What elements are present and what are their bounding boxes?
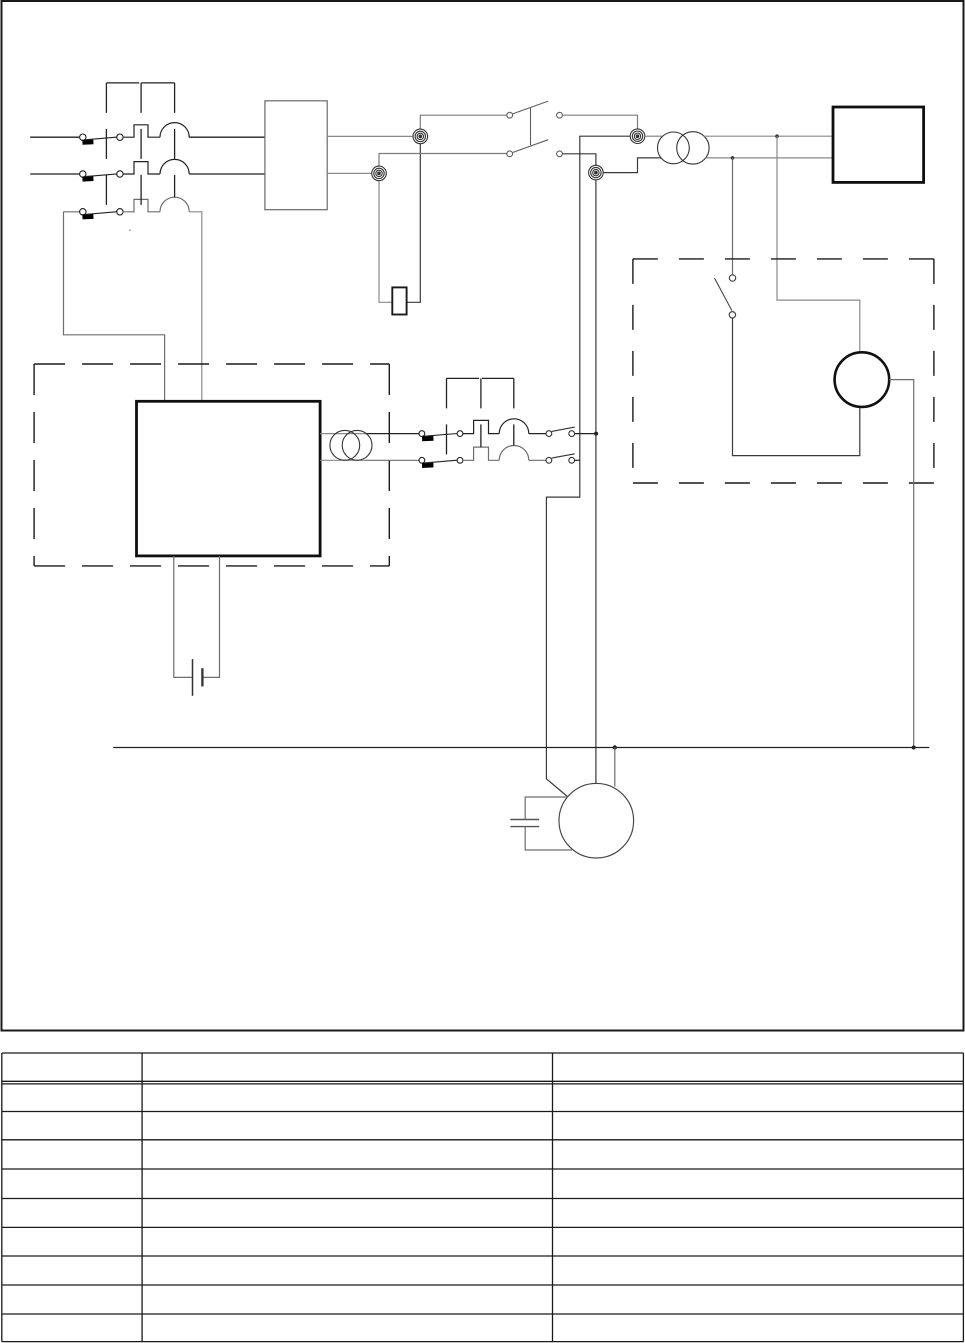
breaker pole 1 release block [82, 139, 93, 145]
wire row 1 to switch [529, 433, 546, 435]
relay row 1 coil arc [499, 419, 529, 434]
door switch S1 pole 2 contact right [557, 151, 563, 157]
table row rule 4 [2, 1198, 964, 1200]
breaker pole 2 thermal element and wire [123, 162, 160, 174]
wire controller bottom left to battery [174, 556, 193, 678]
wire pole 2 to filter [189, 173, 265, 175]
breaker pole 1 blade [85, 137, 117, 140]
connector J3 [630, 129, 645, 144]
relay row 2 thermal element [463, 447, 499, 460]
door switch S1 pole 2 blade [513, 140, 549, 153]
table column divider 1 [141, 1053, 143, 1342]
transformer T2 secondary circle [342, 430, 372, 460]
junction node upper [775, 134, 779, 138]
common horizontal line [113, 747, 929, 749]
noise filter box [265, 101, 327, 210]
wire lamp switch to lamp bottom [733, 318, 860, 456]
wire junction down to motor [614, 748, 616, 787]
relay row 2 blade [425, 460, 458, 463]
table column divider 2 [552, 1053, 554, 1342]
table row rule 8 [2, 1313, 964, 1315]
row 2 switch blade [552, 454, 575, 458]
wire capacitor top to motor [525, 797, 568, 820]
door switch S1 pole 1 contact right [557, 112, 563, 118]
wire controller output lower dark [366, 459, 420, 461]
connector J2 [372, 166, 387, 181]
transformer T2 primary circle [330, 430, 360, 460]
capacitor top plate [510, 819, 539, 821]
wire L phase input pole 1 [30, 136, 80, 138]
table header double rule lower [2, 1083, 964, 1085]
breaker pole 3 thermal element and wire [123, 199, 160, 211]
connector J1 [413, 129, 428, 144]
junction node common line right [912, 746, 916, 750]
breaker pole 3 release block [82, 214, 93, 220]
table row rule 5 [2, 1226, 964, 1228]
wire controller bottom right to battery [202, 556, 219, 678]
table row rule 7 [2, 1284, 964, 1286]
connector J4 [589, 165, 604, 180]
breaker pole 2 contact circle left [80, 171, 86, 177]
relay row 1 thermal element [463, 420, 499, 433]
wire row 2 to switch [529, 459, 546, 461]
wire row 2 to vertical line [575, 459, 580, 461]
wire connector J2 up to door switch [379, 154, 507, 174]
wire connector J1 up to door switch [420, 115, 506, 136]
wire switch pole1 to connector J3 [562, 115, 637, 129]
wire from connector J4 long drop to motor [595, 180, 597, 784]
wire capacitor bottom to motor [525, 827, 572, 850]
relay linkage dashed line left [446, 378, 448, 460]
wire connector J1 down to fuse [407, 136, 421, 302]
control assembly dashed box [34, 364, 389, 566]
table top rule [2, 1052, 964, 1054]
breaker pole 1 contact circle left [80, 134, 86, 140]
wire J4 up to transformer T1 [603, 158, 661, 173]
table row rule 6 [2, 1255, 964, 1257]
wire row 1 to junction [575, 433, 597, 435]
border frame of schematic [2, 1, 964, 1031]
relay row 2 coil arc [499, 445, 529, 460]
row 2 switch contact left [546, 457, 552, 463]
breaker linkage dashed line middle [140, 83, 142, 212]
stray mark [129, 229, 131, 231]
row 1 switch contact left [546, 431, 552, 437]
wire upper junction drop to lamp [777, 136, 860, 352]
wire J3 to transformer T1 [644, 135, 662, 137]
breaker pole 2 blade [85, 174, 117, 177]
fan motor circle [559, 783, 634, 858]
table header double rule upper [2, 1080, 964, 1082]
wire pole 3 right down to control board [189, 212, 202, 401]
breaker pole 1 thermal element and wire [123, 125, 160, 137]
capacitor bottom plate [510, 826, 539, 828]
breaker linkage bar [106, 82, 174, 84]
breaker pole 1 contact circle right [117, 134, 123, 140]
breaker linkage dashed line left [105, 83, 107, 212]
wire ground pole 3 left corner [64, 211, 80, 213]
wire switch pole2 to connector J4 [562, 154, 596, 166]
wire controller output upper dark [366, 433, 420, 435]
wire N phase input pole 2 [30, 173, 80, 175]
wire from connector J3 left branch long drop [546, 136, 630, 797]
wire lower junction drop to lamp switch [732, 158, 734, 275]
wire controller output upper [320, 433, 365, 435]
junction node row 1 [594, 432, 598, 436]
lamp compartment dashed box [633, 259, 934, 483]
row 1 switch contact right [569, 431, 575, 437]
door switch S1 pole 1 blade [513, 101, 549, 114]
breaker pole 2 contact circle right [117, 171, 123, 177]
wire filter output lower [327, 172, 379, 174]
table bottom rule [2, 1341, 964, 1343]
breaker pole 3 contact circle right [117, 209, 123, 215]
lamp switch S2 contact top [729, 275, 735, 281]
wire pole 3 left down [64, 212, 165, 401]
junction node common line motor [613, 745, 617, 749]
breaker pole 3 contact circle left [80, 209, 86, 215]
relay linkage dashed line middle [480, 378, 482, 447]
breaker pole 3 blade [85, 212, 117, 215]
relay row 1 contact circle left [419, 431, 425, 437]
table outer left border [1, 1053, 3, 1342]
wire T1 lower to PCB box [706, 157, 833, 159]
relay row 2 contact circle left [419, 457, 425, 463]
battery long plate [192, 659, 194, 696]
table outer right border [962, 1053, 964, 1342]
transformer T1 primary circle [658, 132, 690, 164]
battery short plate [201, 668, 203, 686]
relay row 1 release block [422, 436, 434, 442]
wire table header top [2, 1053, 964, 1342]
door switch S1 pole 1 contact left [507, 112, 513, 118]
door switch S1 link bar [530, 108, 532, 146]
lamp switch S2 contact bottom [729, 312, 735, 318]
wire lamp right side down to common line [889, 380, 914, 748]
wire pole 1 to filter [189, 136, 265, 138]
breaker pole 2 release block [82, 176, 93, 182]
oven lamp [835, 352, 890, 407]
fuse F1 [392, 287, 406, 314]
row 2 switch contact right [569, 457, 575, 463]
relay linkage bar [447, 377, 514, 379]
relay row 2 contact circle right [457, 457, 463, 463]
transformer T1 secondary circle [677, 132, 709, 164]
table row rule 2 [2, 1139, 964, 1141]
row 1 switch blade [552, 427, 575, 431]
breaker pole 1 magnetic coil arc [160, 123, 189, 138]
wire filter output upper [327, 135, 420, 137]
display PCB box [833, 107, 924, 182]
door switch S1 pole 2 contact left [507, 151, 513, 157]
wire connector J2 down to fuse [379, 173, 392, 302]
breaker pole 2 magnetic coil arc [160, 159, 189, 174]
table row rule 1 [2, 1111, 964, 1113]
controller PCB box [137, 401, 321, 556]
relay row 2 release block [422, 462, 434, 468]
lamp switch S2 blade [715, 278, 732, 311]
breaker pole 3 magnetic coil arc [160, 197, 189, 212]
junction node lower [731, 156, 735, 160]
relay linkage dashed line right [513, 378, 515, 445]
relay row 1 contact circle right [457, 431, 463, 437]
table row rule 3 [2, 1168, 964, 1170]
breaker linkage dashed line right [174, 83, 176, 197]
relay row 1 blade [425, 434, 458, 437]
wire controller output lower [320, 459, 365, 461]
wire T1 upper to PCB box [703, 135, 833, 137]
